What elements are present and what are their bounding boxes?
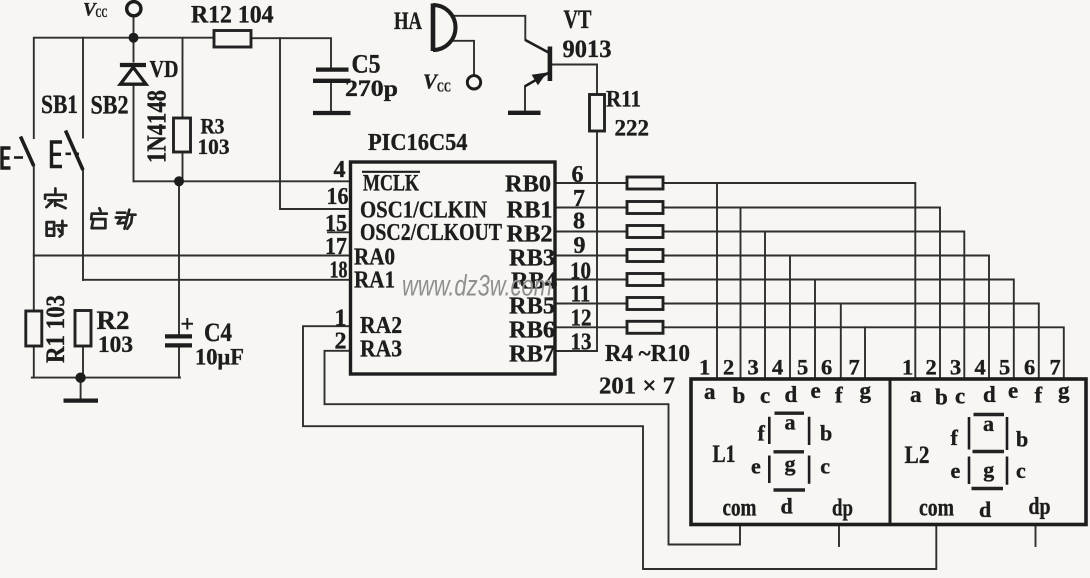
svg-text:R2: R2 <box>97 306 130 335</box>
svg-text:HA: HA <box>394 8 422 35</box>
svg-text:com: com <box>723 495 757 522</box>
svg-text:f: f <box>758 421 766 446</box>
svg-text:MCLK: MCLK <box>363 171 419 196</box>
svg-text:a: a <box>983 411 994 436</box>
svg-text:VT: VT <box>564 5 592 34</box>
svg-text:a: a <box>910 382 922 407</box>
svg-text:RB7: RB7 <box>509 342 555 368</box>
svg-text:RA1: RA1 <box>354 268 395 294</box>
svg-text:a: a <box>785 409 796 434</box>
svg-text:VD: VD <box>150 56 179 83</box>
svg-text:RA3: RA3 <box>360 337 402 363</box>
svg-text:C4: C4 <box>204 318 232 347</box>
svg-text:13: 13 <box>571 330 592 356</box>
svg-text:g: g <box>785 451 796 476</box>
svg-text:SB2: SB2 <box>91 91 129 120</box>
svg-text:R1 103: R1 103 <box>41 295 70 363</box>
svg-text:3: 3 <box>748 355 759 380</box>
svg-text:1: 1 <box>699 355 710 380</box>
svg-text:g: g <box>1058 378 1070 403</box>
svg-text:8: 8 <box>573 209 585 235</box>
svg-text:2: 2 <box>926 355 937 380</box>
svg-text:RB1: RB1 <box>507 198 553 224</box>
svg-text:g: g <box>860 378 872 403</box>
svg-text:CC: CC <box>437 81 451 96</box>
svg-text:17: 17 <box>325 234 347 260</box>
svg-text:7: 7 <box>1050 355 1061 380</box>
svg-text:dp: dp <box>1029 494 1051 520</box>
svg-text:e: e <box>951 458 961 483</box>
svg-text:d: d <box>983 382 996 407</box>
svg-text:R12 104: R12 104 <box>191 2 274 29</box>
svg-text:RB2: RB2 <box>507 222 553 248</box>
svg-text:c: c <box>955 384 965 409</box>
svg-text:d: d <box>785 382 798 407</box>
svg-text:4: 4 <box>975 355 986 380</box>
svg-text:9: 9 <box>574 233 586 259</box>
svg-text:11: 11 <box>571 282 591 308</box>
svg-text:RB3: RB3 <box>509 246 555 272</box>
svg-text:5: 5 <box>797 355 808 380</box>
svg-text:4: 4 <box>334 157 346 183</box>
svg-text:R11: R11 <box>606 87 641 112</box>
svg-text:RA2: RA2 <box>360 313 402 339</box>
svg-text:SB1: SB1 <box>41 90 78 119</box>
svg-text:e: e <box>811 378 821 403</box>
svg-text:f: f <box>1035 383 1043 408</box>
svg-text:com: com <box>919 495 954 522</box>
svg-text:R4 ~R10: R4 ~R10 <box>605 341 690 367</box>
svg-text:10μF: 10μF <box>195 345 244 370</box>
svg-text:www.dz3w.com: www.dz3w.com <box>402 270 552 303</box>
svg-text:g: g <box>983 457 994 482</box>
svg-text:RB0: RB0 <box>505 171 551 197</box>
svg-text:f: f <box>951 425 959 450</box>
svg-text:16: 16 <box>327 184 349 210</box>
svg-text:18: 18 <box>330 257 348 283</box>
svg-text:PIC16C54: PIC16C54 <box>368 130 468 156</box>
svg-text:2: 2 <box>335 329 347 355</box>
svg-text:12: 12 <box>571 306 592 332</box>
svg-text:L2: L2 <box>905 442 930 469</box>
svg-text:dp: dp <box>832 496 853 522</box>
svg-text:103: 103 <box>198 134 230 159</box>
svg-text:201 × 7: 201 × 7 <box>599 374 675 400</box>
svg-text:e: e <box>751 453 761 478</box>
svg-text:d: d <box>781 494 793 519</box>
svg-text:f: f <box>835 383 843 408</box>
svg-text:CC: CC <box>96 5 108 20</box>
svg-text:RB6: RB6 <box>509 318 555 344</box>
svg-text:c: c <box>1016 458 1026 483</box>
svg-text:c: c <box>820 453 830 478</box>
svg-text:103: 103 <box>98 332 133 357</box>
svg-text:1N4148: 1N4148 <box>142 90 172 163</box>
svg-text:7: 7 <box>849 355 860 380</box>
svg-text:2: 2 <box>723 355 734 380</box>
svg-text:L1: L1 <box>713 441 736 468</box>
svg-text:3: 3 <box>950 355 961 380</box>
svg-text:d: d <box>979 497 991 522</box>
svg-text:C5: C5 <box>352 50 381 79</box>
svg-text:b: b <box>733 383 746 408</box>
svg-text:e: e <box>1008 378 1018 403</box>
svg-text:270p: 270p <box>345 76 398 101</box>
svg-text:4: 4 <box>772 355 783 380</box>
svg-text:222: 222 <box>615 116 650 141</box>
svg-text:c: c <box>760 383 770 408</box>
svg-text:1: 1 <box>902 355 913 380</box>
svg-text:9013: 9013 <box>563 36 612 63</box>
svg-text:OSC2/CLKOUT: OSC2/CLKOUT <box>360 220 502 246</box>
svg-text:6: 6 <box>1024 355 1035 380</box>
svg-text:5: 5 <box>999 355 1010 380</box>
svg-text:b: b <box>1016 427 1028 452</box>
svg-text:6: 6 <box>821 355 832 380</box>
svg-text:6: 6 <box>572 162 584 188</box>
svg-text:b: b <box>820 421 832 446</box>
svg-text:b: b <box>935 385 948 410</box>
svg-text:a: a <box>704 379 716 404</box>
